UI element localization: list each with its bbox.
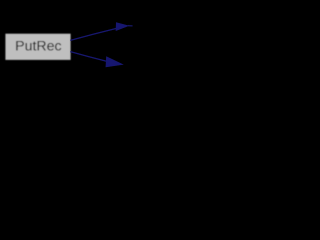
arrowhead lower <box>106 56 124 67</box>
background <box>0 0 203 93</box>
arrowhead upper <box>116 22 130 31</box>
wire upper edge <box>70 28 116 40</box>
node PutRec <box>5 34 70 60</box>
svg-text:PutRec: PutRec <box>15 38 62 54</box>
wire lower edge <box>70 52 106 62</box>
